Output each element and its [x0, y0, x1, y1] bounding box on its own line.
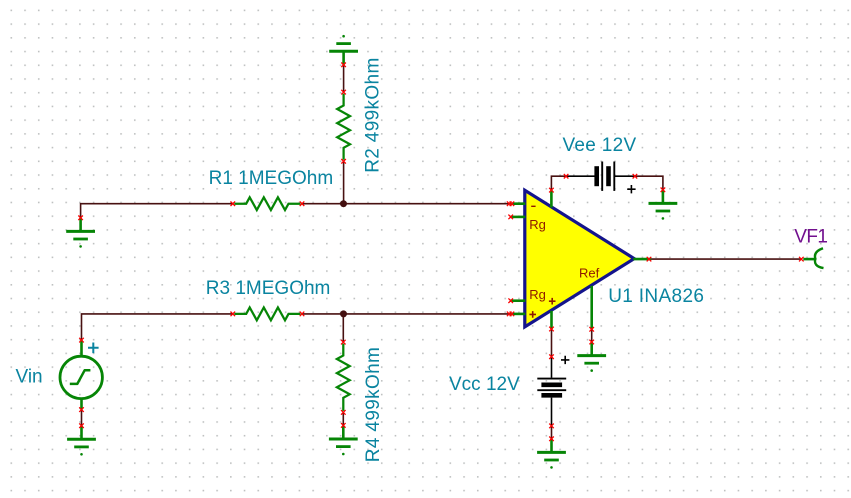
wire: op-amp output to VF1 probe: [651, 258, 801, 260]
svg-text:Vee 12V: Vee 12V: [563, 135, 637, 156]
svg-text:VF1: VF1: [794, 226, 827, 247]
svg-text:Vcc 12V: Vcc 12V: [449, 374, 520, 395]
svg-text:R2 499kOhm: R2 499kOhm: [363, 57, 384, 172]
op-amp pin label: minus (inverting): [531, 205, 535, 207]
resistor R4: [337, 340, 350, 415]
wire: R3 to op-amp non-inverting input (through node N2): [302, 313, 510, 315]
ground (top, above R2, points up): [329, 35, 358, 67]
wire: R1 to op-amp inverting input (through node N1): [302, 203, 509, 205]
voltage source Vin: [60, 338, 102, 412]
wire: Vin up to R3 row: [82, 314, 233, 340]
svg-text:R3 1MEGOhm: R3 1MEGOhm: [206, 278, 331, 299]
op-amp pin: V- (bottom): [549, 311, 554, 332]
wire: top ground to R2: [343, 65, 345, 92]
op-amp pin: inverting input: [507, 201, 525, 206]
svg-text:U1 INA826: U1 INA826: [608, 286, 704, 307]
wire: left ground up to R1 row: [81, 204, 233, 218]
svg-text:R4 499kOhm: R4 499kOhm: [363, 347, 384, 462]
wire: Vin minus to ground: [81, 410, 83, 426]
wire: Ref pin to its ground: [591, 329, 593, 342]
op-amp pin: Rg top: [508, 215, 525, 220]
ground (below R4): [329, 423, 358, 455]
wire: Vee battery right to its ground: [635, 176, 663, 190]
wire: R4 to ground: [342, 412, 344, 425]
op-amp pin: non-inverting input: [507, 312, 525, 317]
op-amp pin: Ref: [589, 286, 594, 332]
ground (right of Vee battery): [649, 188, 678, 220]
op-amp U1 INA826 (triangle body): [525, 190, 634, 327]
svg-text:Ref: Ref: [579, 266, 600, 281]
op-amp pin label: plus (non-inverting): [529, 311, 536, 318]
ground (below Vin): [67, 423, 96, 455]
op-amp pin: output: [633, 257, 651, 262]
svg-text:Vin: Vin: [16, 366, 43, 387]
node N2 junction: [340, 310, 347, 317]
svg-text:Rg: Rg: [529, 287, 546, 302]
resistor R1: [231, 197, 305, 210]
op-amp pin: Rg bottom: [508, 298, 525, 303]
output probe VF1: [799, 248, 824, 268]
wire: R2 down to node N1: [343, 161, 345, 203]
svg-text:R1 1MEGOhm: R1 1MEGOhm: [209, 168, 334, 189]
node N1 junction: [340, 200, 347, 207]
ground (left end of R1 input wire): [66, 216, 95, 248]
wire: node N2 down to R4: [342, 314, 344, 342]
resistor R3: [231, 308, 305, 321]
ground (below Vcc battery): [537, 437, 566, 469]
ground (below Ref pin): [577, 340, 606, 372]
op-amp pin: V+ (top): [549, 188, 554, 208]
wire: op-amp V- pin down to Vcc battery: [551, 329, 553, 357]
battery Vee 12V (horizontal): [564, 162, 637, 194]
resistor R2: [337, 90, 350, 164]
wire: Vcc battery to its ground: [551, 426, 553, 439]
wire: op-amp V+ pin up and over to Vee battery: [551, 176, 566, 190]
battery Vcc 12V (vertical): [537, 354, 569, 428]
svg-text:Rg: Rg: [529, 217, 546, 232]
